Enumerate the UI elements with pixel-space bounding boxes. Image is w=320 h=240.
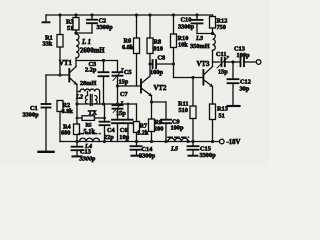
capacitor C3 [85,61,109,105]
node emitter/bus [75,102,78,105]
resistor R10 [171,15,189,78]
node R8/C8/collector [148,62,151,65]
node rail junctions [58,13,198,16]
capacitor C15 [188,142,217,160]
capacitor C6 [119,104,132,142]
transistor VT3 [197,61,213,87]
wire VT3 collector [212,62,214,67]
transistor VT1 [59,60,77,84]
node emitter column [76,117,79,120]
capacitor C13 bypass [72,142,96,163]
inductor L2 28mH [75,80,100,104]
transistor VT2 [141,76,167,96]
input terminal top-left [43,15,50,22]
wire transformer bottom bus [77,103,137,105]
inductor L4 [79,134,100,150]
power terminal -18V [220,139,241,146]
node C5/C7 junction [116,84,119,87]
capacitor C12 [228,62,251,106]
resistor R4 [61,84,80,141]
node R11 top [191,76,194,79]
transformer TX [85,92,97,117]
wire VT3 base [174,77,204,79]
resistor R1 [43,15,64,75]
resistor R13 [210,104,228,142]
wire VT1 collector to C5 column [76,60,118,62]
node C8 joins R10 column [172,62,175,65]
node base VT1 [58,73,61,76]
inductor L1 [76,33,105,67]
node C6 top [127,103,130,106]
capacitor C13 output [233,46,256,67]
trimmer capacitor C7 [113,86,128,120]
resistor R5 [77,116,105,135]
resistor R2 [57,101,73,142]
capacitor C9 [161,119,184,142]
node R5 right [103,117,106,120]
node C3 bottom [102,102,105,105]
node C7 bus [116,102,119,105]
node L1 top [74,31,77,34]
capacitor C2 [87,15,113,33]
resistor R3 [66,15,79,33]
node rail junctions bottom [75,140,214,143]
resistor R8 [147,15,163,64]
wire VT2 collector [149,64,151,76]
ground bar C12 [228,105,240,107]
resistor R9 [149,119,164,142]
ground bar input bottom [39,151,54,153]
node emitter/R9 [150,100,153,103]
resistor R7 [134,104,149,142]
wire VT1 base [46,74,69,76]
wire node R3/C2 bottoms [76,32,92,34]
capacitor C14 [131,142,156,160]
inductor L3 [190,32,215,62]
inductor L5 [168,137,189,152]
capacitor C4 [104,120,123,142]
wire top rail [46,14,213,16]
node output divider [231,60,234,63]
capacitor C10 [178,15,213,34]
wire output [213,61,220,63]
resistor R12 [210,15,228,34]
resistor R11 [178,78,196,142]
wire VT2 emitter [152,96,167,120]
capacitor (C3 branch bypass) [100,104,110,142]
trimmer capacitor C5 [113,61,132,87]
resistor R6 [122,15,140,86]
capacitor C1 [23,75,51,151]
wire VT2 base [118,85,141,87]
wire bottom supply rail [60,141,220,143]
node C3 tap [102,59,105,62]
output terminal [256,60,261,65]
trimmer capacitor C11 [216,51,233,76]
wire VT3 emitter [212,87,214,105]
capacitor C8 [150,55,174,77]
